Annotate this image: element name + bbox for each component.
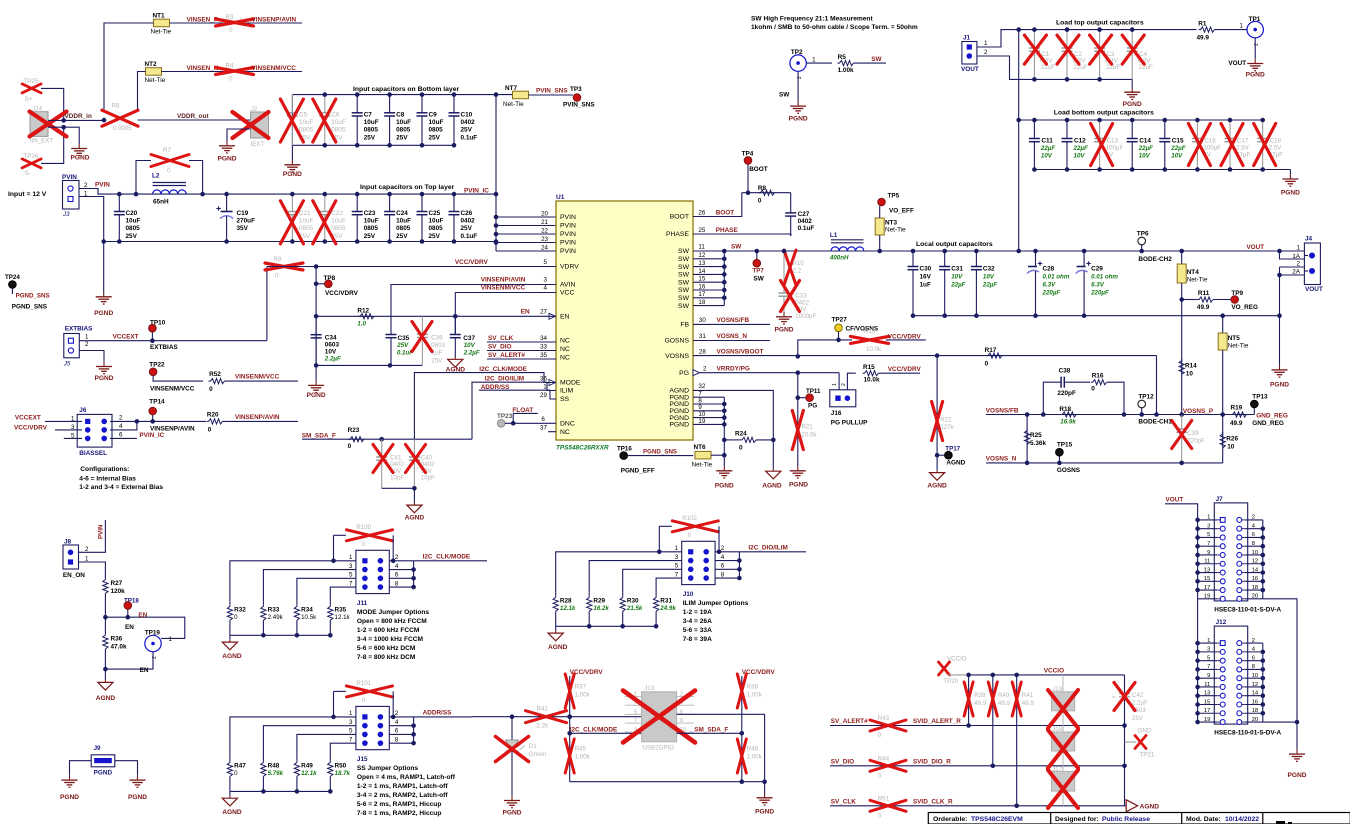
pin name NC left: [560, 355, 570, 362]
svg-text:PVIN: PVIN: [560, 248, 576, 255]
svg-text:I2C_CLK/MODE: I2C_CLK/MODE: [479, 366, 527, 373]
svg-text:22: 22: [541, 228, 548, 235]
wire J9 left: [70, 761, 92, 776]
svg-text:R51: R51: [878, 795, 890, 802]
node J11 rail: [328, 633, 333, 638]
pin number 1: [543, 383, 547, 390]
svg-text:1-2 = 19A: 1-2 = 19A: [683, 609, 712, 616]
section title input caps top: [360, 184, 455, 191]
capacitor C31: [939, 251, 950, 316]
pin number 5: [544, 259, 548, 266]
svg-text:PGND: PGND: [1287, 772, 1306, 779]
net label SVID_CLK_R: [913, 798, 953, 805]
svg-text:16.2k: 16.2k: [593, 605, 609, 612]
net label SV_CLK: [488, 335, 514, 342]
node R102 left node: [657, 550, 662, 555]
svg-text:7-8 = 39A: 7-8 = 39A: [683, 636, 712, 643]
net label VCCEXT: [113, 334, 139, 341]
node C40 bot: [412, 486, 417, 491]
svg-text:Orderable:: Orderable:: [933, 816, 967, 823]
svg-text:10uF: 10uF: [396, 218, 411, 225]
connector J3 PVIN: [62, 174, 88, 218]
pin number 35: [540, 352, 547, 359]
svg-text:0805: 0805: [364, 127, 379, 134]
node TP18 tap: [126, 615, 131, 620]
svg-text:6: 6: [721, 563, 725, 570]
svg-text:L2: L2: [152, 173, 160, 180]
wire J7 pin 20: [1245, 598, 1263, 600]
wire PVIN pin 23: [496, 242, 556, 244]
node C24 top: [387, 192, 392, 197]
test point TP12: [1138, 393, 1172, 425]
node C26 top: [452, 192, 457, 197]
svg-text:23: 23: [541, 236, 548, 243]
svg-text:220pF: 220pF: [1057, 390, 1076, 397]
node C17 top: [1228, 118, 1233, 123]
wire FLOAT: [513, 412, 538, 414]
pin number 2: [703, 365, 707, 372]
svg-text:10V: 10V: [1074, 152, 1086, 159]
node C3 bot: [1097, 77, 1102, 82]
node R40 bot: [991, 764, 996, 769]
svg-text:DNC: DNC: [560, 421, 575, 428]
connector J13 USB2GPIO (DNP): [623, 685, 695, 752]
wire I2C_CLK/MODE: [414, 373, 556, 440]
pin number 8: [698, 397, 702, 404]
text configurations: [79, 466, 163, 491]
svg-text:0805: 0805: [126, 225, 141, 232]
capacitor C34: [311, 316, 322, 365]
svg-text:TP13: TP13: [1252, 393, 1268, 400]
wire R100 right: [392, 535, 394, 561]
wire NT6 to PGND bus: [711, 454, 724, 456]
pin number 4: [544, 285, 548, 292]
svg-text:15: 15: [698, 276, 705, 283]
svg-text:6.3V: 6.3V: [1043, 281, 1057, 288]
capacitor C40 (DNP): [406, 439, 436, 488]
wire J15 pin6: [389, 733, 413, 735]
svg-text:VOSNS_N: VOSNS_N: [717, 333, 748, 340]
pin number 29: [540, 392, 547, 399]
svg-text:R34: R34: [301, 606, 313, 613]
svg-text:TP21: TP21: [1140, 752, 1155, 759]
node C20 bot: [117, 239, 122, 244]
svg-text:0.01 ohm: 0.01 ohm: [1043, 273, 1070, 280]
pin number 34: [540, 335, 547, 342]
svg-text:AVIN: AVIN: [560, 282, 575, 289]
capacitor C26: [449, 194, 478, 241]
svg-text:7: 7: [349, 580, 353, 587]
svg-text:4-6 = Internal Bias: 4-6 = Internal Bias: [79, 475, 136, 482]
wire J11 pin2: [389, 560, 413, 562]
svg-text:34: 34: [540, 335, 547, 342]
node R25 bot: [1025, 461, 1030, 466]
wire PVIN pin 21: [496, 225, 556, 227]
svg-text:1: 1: [675, 545, 679, 552]
svg-text:10V: 10V: [464, 342, 476, 349]
pin number 11: [698, 244, 705, 251]
svg-text:AGND: AGND: [762, 483, 782, 490]
resistor R28: [553, 593, 576, 627]
svg-text:R7: R7: [163, 147, 171, 154]
svg-text:2.2µF: 2.2µF: [1132, 700, 1148, 707]
svg-text:AGND: AGND: [927, 483, 947, 490]
node J15 right 4: [411, 723, 416, 728]
node PGND pin 19: [722, 422, 727, 427]
wire SW pin 13: [693, 266, 724, 268]
svg-text:R44: R44: [878, 755, 890, 762]
svg-text:6.3V: 6.3V: [1091, 281, 1105, 288]
svg-text:0805: 0805: [331, 225, 346, 232]
wire SV_ALERT#: [487, 358, 556, 360]
svg-text:VOSNS/VBOOT: VOSNS/VBOOT: [717, 348, 764, 355]
svg-text:7-8 = 1 ms, RAMP2, Hiccup: 7-8 = 1 ms, RAMP2, Hiccup: [357, 810, 441, 817]
ground PGND (C34): [315, 365, 317, 380]
svg-text:8: 8: [395, 736, 399, 743]
pin MODE arrow: [549, 380, 556, 386]
svg-text:Net-Tie: Net-Tie: [503, 101, 524, 108]
resistor R50: [328, 758, 351, 792]
svg-text:0.01 ohm: 0.01 ohm: [1091, 273, 1118, 280]
node J15 rail: [328, 789, 333, 794]
svg-text:SVID_DIO_R: SVID_DIO_R: [913, 758, 951, 765]
net label VOUT (TP1): [1228, 60, 1246, 67]
svg-text:PGND: PGND: [128, 794, 147, 801]
wire J12 pin 8: [1245, 668, 1263, 670]
node C31 top: [942, 249, 947, 254]
svg-text:TPS548C26RXXR: TPS548C26RXXR: [556, 445, 609, 452]
svg-text:SV_CLK: SV_CLK: [831, 798, 857, 805]
svg-text:12.1k: 12.1k: [301, 770, 317, 777]
resistor R5: [838, 54, 887, 74]
svg-text:10V: 10V: [1171, 152, 1183, 159]
svg-text:1: 1: [832, 383, 838, 386]
node C32 bot: [974, 313, 979, 318]
svg-text:25V: 25V: [364, 134, 376, 141]
svg-text:0402: 0402: [798, 218, 813, 225]
svg-text:0: 0: [758, 198, 762, 205]
svg-text:I2C_CLK/MODE: I2C_CLK/MODE: [570, 727, 618, 734]
svg-text:3: 3: [675, 554, 679, 561]
svg-text:R18: R18: [1059, 406, 1071, 413]
wire J2 pin2 to PGND: [227, 129, 251, 141]
node C22 bot: [323, 239, 328, 244]
wire VCCIO rail: [969, 674, 1125, 676]
svg-text:C34: C34: [325, 335, 337, 342]
capacitor C22 (DNP): [313, 194, 346, 244]
net label SW (TP2 gnd): [779, 92, 790, 99]
ground AGND (R36): [96, 680, 116, 702]
svg-text:TP3: TP3: [570, 86, 582, 93]
svg-text:AGND: AGND: [222, 653, 242, 660]
svg-text:R12: R12: [357, 308, 369, 315]
svg-text:3-4 = 2 ms, RAMP2, Latch-off: 3-4 = 2 ms, RAMP2, Latch-off: [357, 792, 448, 799]
test point TP27: [832, 317, 879, 340]
node pin20: [494, 215, 499, 220]
svg-text:C36: C36: [431, 334, 443, 341]
svg-text:PGND: PGND: [774, 327, 793, 334]
pin name SS left: [560, 396, 570, 403]
svg-text:S+: S+: [25, 96, 33, 103]
svg-text:PGND: PGND: [1246, 72, 1265, 79]
wire J1 pin1: [977, 30, 1019, 47]
node J12 L17: [1195, 711, 1200, 716]
node NT6 node: [722, 453, 727, 458]
capacitor C24: [384, 194, 411, 241]
svg-text:R47: R47: [234, 762, 246, 769]
node C28 bot: [1033, 313, 1038, 318]
svg-text:127k: 127k: [940, 424, 954, 431]
svg-text:0: 0: [878, 812, 882, 819]
svg-text:EN: EN: [138, 612, 147, 619]
svg-text:10uF: 10uF: [364, 218, 379, 225]
svg-text:R16: R16: [1092, 373, 1104, 380]
wire J12 to PGND: [1263, 721, 1297, 723]
node C9 top: [420, 92, 425, 97]
node J7 L7: [1195, 544, 1200, 549]
svg-text:Load top output capacitors: Load top output capacitors: [1056, 20, 1144, 27]
node R7 right: [200, 192, 205, 197]
node C37 top: [453, 314, 458, 319]
wire J12 pin 11: [1198, 686, 1218, 688]
node R101 right node: [391, 715, 396, 720]
node rail right: [1277, 313, 1282, 318]
net label BOOT: [716, 210, 735, 217]
svg-text:10V: 10V: [1139, 152, 1151, 159]
capacitor C32: [971, 251, 982, 316]
svg-text:VOUT: VOUT: [1246, 244, 1264, 251]
svg-text:R40: R40: [998, 692, 1010, 699]
ground AGND (pin32): [762, 469, 782, 490]
node C16 bot: [1195, 167, 1200, 172]
svg-text:1.00k: 1.00k: [838, 67, 854, 74]
svg-text:R42: R42: [537, 706, 549, 713]
wire R17 to VOSNS_P: [1142, 356, 1157, 415]
svg-text:18.7k: 18.7k: [335, 770, 351, 777]
svg-text:0: 0: [739, 445, 743, 452]
capacitor C29 (polarized): [1076, 251, 1091, 316]
svg-text:MODE: MODE: [560, 380, 581, 387]
connector J1: [961, 35, 988, 74]
svg-text:SM_SDA_F: SM_SDA_F: [302, 432, 336, 439]
wire PGND pin 7: [693, 396, 724, 398]
svg-text:VDRV: VDRV: [560, 264, 579, 271]
wire J7 pin 15: [1198, 580, 1218, 582]
pin number 13: [698, 260, 705, 267]
pin name PG right: [679, 370, 689, 377]
net label VOSNS/FB (divider): [986, 407, 1019, 414]
svg-text:10/14/2022: 10/14/2022: [1225, 816, 1259, 823]
svg-text:GND: GND: [1138, 728, 1152, 735]
net label VINSENM/VCC: [252, 65, 297, 72]
wire PVIN rail: [79, 189, 496, 195]
node PVIN top rail: [494, 92, 499, 97]
net label VINSENM/VCC (VCC): [481, 285, 526, 292]
wire J13 pin6 right: [677, 714, 765, 781]
resistor R7 (DNP): [151, 147, 189, 175]
svg-text:R101: R101: [356, 680, 371, 687]
node cap rail to IC: [494, 239, 499, 244]
pin number 32: [698, 383, 705, 390]
svg-text:SW: SW: [678, 248, 690, 255]
wire VOSNS/FB stub: [693, 323, 770, 325]
wire J6 pin5 stub: [64, 437, 82, 439]
resistor R17: [985, 347, 1002, 367]
svg-text:SW High Frequency 21:1 Measure: SW High Frequency 21:1 Measurement: [751, 16, 873, 23]
node pin23: [494, 240, 499, 245]
wire SW pin 17: [693, 297, 724, 299]
svg-text:VINSENM/VCC: VINSENM/VCC: [252, 65, 297, 72]
svg-text:R5: R5: [838, 54, 847, 61]
svg-text:8: 8: [680, 718, 683, 724]
svg-text:7: 7: [634, 718, 637, 724]
svg-text:35V: 35V: [237, 225, 249, 232]
node R41 top: [1014, 673, 1019, 678]
svg-text:10V: 10V: [1041, 152, 1053, 159]
resistor R41 (DNP): [1012, 675, 1034, 806]
wire J7 pin 10: [1245, 554, 1263, 556]
svg-text:SW: SW: [678, 279, 690, 286]
svg-text:0: 0: [209, 386, 213, 393]
svg-text:1000pF: 1000pF: [795, 313, 816, 320]
node R100 right node: [391, 559, 396, 564]
net label VCC/VDRV (J6): [14, 424, 48, 431]
capacitor C18 (DNP): [1254, 120, 1283, 170]
node C8 top: [387, 92, 392, 97]
wire PGND pin 10: [693, 417, 724, 419]
wire VDDR_out: [138, 119, 251, 121]
connector J7: [1204, 496, 1282, 614]
svg-text:R41: R41: [1022, 692, 1034, 699]
svg-text:49.9: 49.9: [998, 700, 1011, 707]
ground PGND (D1): [502, 796, 521, 817]
wire J12 pin 18: [1245, 712, 1263, 714]
wire J6 pin6: [110, 437, 137, 439]
pin name PVIN left: [560, 240, 576, 247]
net label PVIN_IC: [464, 188, 489, 195]
svg-text:R27: R27: [111, 580, 123, 587]
svg-text:49.9: 49.9: [1197, 304, 1210, 311]
svg-text:0: 0: [878, 772, 882, 779]
svg-text:AGND: AGND: [946, 460, 965, 467]
svg-text:R15: R15: [863, 364, 875, 371]
wire J12 pin 10: [1245, 677, 1263, 679]
resistor R33: [261, 602, 284, 636]
svg-text:2.2k: 2.2k: [537, 723, 550, 730]
svg-text:VINSENM/VCC: VINSENM/VCC: [481, 285, 526, 292]
node C42 row A: [1122, 723, 1127, 728]
wire TP27 branch: [798, 340, 852, 357]
svg-text:0.1uF: 0.1uF: [461, 134, 478, 141]
node R6 left: [102, 118, 107, 123]
wire ADDR/SS row to R37 node: [472, 716, 642, 718]
svg-text:J13: J13: [644, 685, 655, 692]
wire GOSNS row: [986, 462, 1223, 464]
svg-text:GND_REG: GND_REG: [1256, 413, 1288, 420]
svg-text:R50: R50: [335, 762, 347, 769]
svg-text:16.9k: 16.9k: [1060, 419, 1076, 426]
capacitor C6 (DNP): [313, 95, 346, 146]
wire PHASE: [693, 234, 791, 236]
node J12 L7: [1195, 667, 1200, 672]
svg-text:0402: 0402: [461, 119, 476, 126]
svg-text:25V: 25V: [461, 127, 473, 134]
node PGND pin 9: [722, 409, 727, 414]
svg-text:0805: 0805: [396, 225, 411, 232]
wire J12 pin 20: [1245, 721, 1263, 723]
wire decoupling bottom rail: [316, 364, 422, 366]
net label SV_DIO: [831, 758, 854, 765]
svg-text:PGND: PGND: [283, 171, 302, 178]
text SW measurement note: [751, 16, 918, 32]
svg-text:6: 6: [541, 416, 545, 423]
pin number 9: [698, 404, 702, 411]
svg-text:10V: 10V: [325, 349, 337, 356]
svg-text:C18: C18: [1270, 137, 1282, 144]
svg-text:PVIN: PVIN: [560, 240, 576, 247]
wire PVIN pin 20: [496, 216, 556, 218]
capacitor C21 (DNP): [280, 194, 313, 244]
svg-text:BODE-CH1: BODE-CH1: [1138, 419, 1172, 426]
node R24 left: [722, 438, 727, 443]
svg-text:22µF: 22µF: [1040, 145, 1055, 152]
svg-text:J15: J15: [357, 756, 368, 763]
svg-text:PVIN: PVIN: [560, 223, 576, 230]
svg-text:C29: C29: [1091, 265, 1103, 272]
test point TP14: [149, 399, 195, 433]
svg-text:1: 1: [1240, 23, 1244, 30]
svg-text:33: 33: [540, 343, 547, 350]
svg-text:PGND: PGND: [217, 156, 236, 163]
node C19 bot: [224, 239, 229, 244]
svg-text:22uF: 22uF: [1139, 64, 1153, 71]
text input 12V: [8, 191, 47, 198]
svg-text:10uF: 10uF: [126, 218, 141, 225]
pin name SW right: [678, 295, 690, 302]
wire VRRDY/PG: [700, 372, 840, 374]
svg-text:C17: C17: [1237, 137, 1249, 144]
svg-text:17: 17: [698, 291, 705, 298]
svg-text:2.2µF: 2.2µF: [463, 349, 480, 356]
svg-text:Net-Tie: Net-Tie: [1228, 343, 1249, 350]
wire R37 vertical: [569, 676, 571, 782]
node C28 top: [1033, 249, 1038, 254]
svg-text:20: 20: [541, 211, 548, 218]
node R41 bot: [1014, 804, 1019, 809]
pin name SW right: [678, 287, 690, 294]
resistor R13 (DNP): [851, 328, 889, 353]
wire R102 to row1: [658, 526, 660, 552]
node J7 R12: [1261, 561, 1266, 566]
svg-text:PHASE: PHASE: [716, 227, 739, 234]
connector J2 (DNP): [233, 106, 269, 148]
connector J8 EN_ON: [63, 539, 89, 580]
ground PGND (input bottom bank): [283, 160, 302, 178]
svg-text:3: 3: [544, 277, 548, 284]
node J12 L15: [1195, 702, 1200, 707]
svg-text:7: 7: [349, 736, 353, 743]
wire SV_ALERT row: [830, 725, 1125, 727]
capacitor C5 (DNP): [280, 95, 313, 146]
wire R38 vertical: [741, 676, 743, 782]
svg-text:VO_EFF: VO_EFF: [889, 208, 914, 215]
resistor R36: [103, 617, 127, 680]
test point TP3: [563, 86, 595, 109]
net label PVIN_IC (J6): [139, 432, 164, 439]
svg-text:SW: SW: [678, 272, 690, 279]
node C2 bot: [1065, 77, 1070, 82]
svg-text:TP5: TP5: [888, 193, 900, 200]
